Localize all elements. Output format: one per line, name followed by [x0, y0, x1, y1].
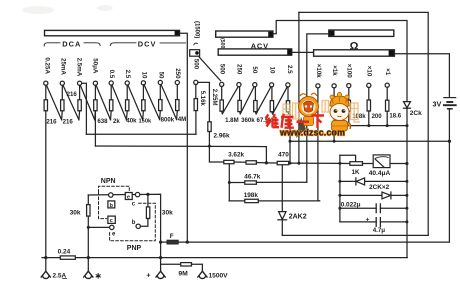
- battery 3V: [444, 98, 456, 109]
- resistor R 800k (50V): [159, 85, 161, 100]
- resistor 470: [277, 161, 289, 164]
- svg-text:470: 470: [278, 152, 289, 159]
- svg-text:3V: 3V: [433, 100, 442, 109]
- DCV 500 contact circle: [194, 80, 198, 84]
- diode 2CK left: [356, 178, 364, 185]
- svg-text:2CK×2: 2CK×2: [369, 184, 390, 191]
- wire H1 battery feed: [290, 140, 449, 142]
- wire diode row R: [340, 194, 407, 196]
- wire between 3.62k boxes: [234, 161, 246, 163]
- NPN dashed box: [99, 186, 130, 218]
- svg-text:+: +: [146, 271, 151, 280]
- svg-text:∗: ∗: [95, 270, 102, 280]
- wire node470 to 470: [266, 162, 277, 164]
- DCA contact labels rotated: [43, 57, 98, 76]
- NPN socket row wire: [88, 194, 160, 242]
- pin circle NPN bottom: [110, 225, 114, 229]
- wire bar to vertical: [180, 33, 188, 242]
- svg-text:2.25M: 2.25M: [211, 89, 217, 106]
- node rowL left: [338, 180, 341, 183]
- wire row163 meter feed: [289, 162, 340, 164]
- svg-text:e: e: [112, 232, 116, 238]
- wire 46.7k right: [256, 181, 306, 183]
- svg-text:0.5: 0.5: [108, 70, 115, 79]
- label bracket DCV: [110, 43, 197, 46]
- label bracket DCA: [44, 43, 100, 46]
- omega common rail: [349, 125, 407, 127]
- node fuse row DCV vertical: [186, 241, 189, 244]
- DCA/DCV contact circles: [44, 80, 180, 85]
- svg-text:×100: ×100: [346, 64, 353, 78]
- 1k wiper bump: [340, 155, 356, 161]
- svg-text:×1: ×1: [384, 68, 391, 76]
- svg-text:9M: 9M: [178, 271, 188, 278]
- node row0022 left: [338, 207, 341, 210]
- resistor 5.16k (DCV 500): [195, 85, 197, 99]
- resistor R 216 (25mA shunt): [61, 85, 63, 99]
- wire meter to right rail: [390, 163, 407, 165]
- svg-text:2Ck: 2Ck: [410, 110, 422, 117]
- pin circle NPN top: [109, 193, 113, 197]
- svg-text:40k: 40k: [126, 118, 137, 125]
- resistor 2.25M (ACV 500): [221, 87, 223, 101]
- resistor R 2k (0.5V): [110, 85, 112, 100]
- terminal plus: [156, 271, 165, 278]
- terminal star: [87, 258, 89, 272]
- wire x10k contact down to 198k row: [318, 88, 320, 201]
- wire 46.7k row: [229, 182, 245, 184]
- svg-text:c: c: [132, 202, 136, 208]
- node omega rail x10: [367, 124, 370, 127]
- wire 198k row: [229, 200, 245, 202]
- svg-text:+: +: [366, 217, 370, 224]
- watermark hollow text: [283, 101, 360, 123]
- resistor 3.62k box a: [224, 160, 234, 163]
- switch bar ACV upper: [216, 31, 273, 37]
- svg-text:1K: 1K: [352, 169, 360, 176]
- node row47 right: [405, 220, 408, 223]
- node x1k H1: [333, 140, 336, 143]
- resistor 2.96k: [208, 122, 211, 132]
- diode 2AK2: [279, 212, 286, 220]
- svg-text:50: 50: [157, 72, 164, 79]
- resistor R 216 (0.25A shunt): [45, 85, 47, 99]
- svg-text:800k: 800k: [161, 116, 175, 123]
- wire ACV bar1 loop to omega rail: [273, 21, 407, 102]
- svg-text:200: 200: [372, 114, 383, 120]
- wire L2 rail: [95, 146, 266, 163]
- resistor 9M: [181, 263, 192, 266]
- resistor 13.5k (ACV 2.5): [287, 87, 289, 101]
- wire diagonal 0.5V to node: [112, 85, 127, 120]
- bottom rail: [42, 257, 407, 259]
- node battery H1: [448, 140, 451, 143]
- omega contact circles: [316, 83, 390, 88]
- node rail row163: [338, 162, 341, 165]
- watermark mascot 1: [296, 93, 319, 138]
- svg-text:(1500): (1500): [193, 21, 199, 38]
- svg-text:DCV: DCV: [138, 39, 157, 48]
- resistor 30k left branch: [87, 195, 89, 205]
- wire 2.5mA contact to L1 rail: [82, 83, 87, 134]
- switch bar ACV lower: [218, 49, 292, 55]
- ACV contact circles: [220, 82, 290, 87]
- node rowL right: [405, 180, 408, 183]
- svg-text:1.8M: 1.8M: [225, 117, 239, 124]
- resistor 200 (x10): [368, 88, 370, 101]
- node 30k bottom pin: [87, 226, 90, 229]
- svg-text:0.24: 0.24: [58, 248, 71, 255]
- wire DCV500 contact to 2.96k: [198, 82, 210, 121]
- resistor 30k right branch: [147, 194, 149, 207]
- svg-text:150k: 150k: [139, 119, 152, 125]
- wire 2AK2 bottom line: [282, 234, 428, 236]
- resistor 3.62k box b: [246, 161, 256, 164]
- wire 3.62k to node470: [256, 162, 266, 164]
- terminal 2.5A: [45, 258, 47, 272]
- watermark mascot 2: [330, 92, 351, 131]
- svg-text:216: 216: [67, 91, 78, 98]
- svg-text:500: 500: [219, 64, 226, 75]
- node fuse left: [159, 241, 162, 244]
- svg-text:50μA: 50μA: [92, 58, 99, 74]
- svg-text:4M: 4M: [178, 116, 186, 123]
- node row163 acv: [289, 162, 292, 165]
- node right rail row1: [405, 162, 408, 165]
- node L2 at 2.96k: [208, 145, 211, 148]
- wire row1 to 1k: [340, 162, 350, 164]
- wire 470 bottom to 2AK2: [281, 165, 283, 211]
- diode 2CK right: [382, 192, 391, 199]
- svg-text:NPN: NPN: [101, 178, 116, 185]
- omega contact labels rotated: [315, 64, 391, 78]
- wire diagonal ACV50 to node: [240, 87, 254, 114]
- wire x1k contact down to H1: [333, 88, 335, 141]
- resistor 1k: [350, 162, 363, 166]
- wire plus terminal drop: [160, 242, 162, 272]
- wire diagonal 2.5V to node: [128, 85, 143, 120]
- svg-text:198k: 198k: [244, 192, 259, 199]
- svg-text:10: 10: [268, 67, 275, 74]
- watermark red text: [266, 114, 325, 128]
- resistor 0.24 on rail: [60, 256, 75, 259]
- wire diagonal ACV2.5 to node: [273, 87, 288, 114]
- pin box b: [108, 201, 115, 208]
- wire bottom pin left: [88, 226, 109, 228]
- node H1 left: [289, 140, 292, 143]
- capacitor 4.7u: [376, 218, 380, 227]
- svg-text:×1k: ×1k: [331, 65, 338, 76]
- resistor R 216b (2.5mA shunt): [79, 85, 81, 99]
- resistor 108k (x100): [348, 88, 350, 101]
- node omega rail diode: [406, 124, 409, 127]
- wire diagonal 0.25A to node: [47, 85, 62, 120]
- resistor R 150k (10V): [142, 85, 144, 100]
- svg-text:5.16k: 5.16k: [199, 91, 205, 107]
- svg-text:30k: 30k: [70, 209, 81, 216]
- fuse F: [161, 241, 167, 243]
- wire cap row 4.7: [340, 221, 407, 223]
- node 470 left: [265, 161, 268, 164]
- resistor 198k: [245, 199, 258, 202]
- resistor R 40k (2.5V): [126, 85, 128, 100]
- svg-text:2AK2: 2AK2: [289, 214, 307, 221]
- svg-text:F: F: [170, 233, 174, 240]
- svg-text:250: 250: [174, 68, 181, 79]
- resistor R 4M (250V): [176, 85, 178, 100]
- switch bar omega lower: [314, 50, 395, 56]
- svg-text:www.dzsc.com: www.dzsc.com: [279, 127, 345, 137]
- paper smudge: [22, 5, 113, 14]
- svg-text:50: 50: [251, 66, 258, 73]
- svg-text:×10: ×10: [366, 66, 373, 77]
- svg-text:c: c: [110, 218, 113, 224]
- svg-text:30k: 30k: [162, 210, 173, 217]
- svg-text:1500V: 1500V: [209, 273, 229, 280]
- svg-text:216: 216: [63, 118, 74, 125]
- svg-text:25mA: 25mA: [60, 58, 67, 75]
- node pin row: [146, 193, 149, 196]
- svg-text:DCA: DCA: [62, 39, 81, 48]
- svg-text:360k: 360k: [241, 117, 255, 124]
- svg-text:0.022μ: 0.022μ: [341, 201, 361, 208]
- svg-text:PNP: PNP: [127, 245, 142, 252]
- resistor 1.8M (ACV 250): [239, 87, 241, 101]
- outer loop top wire: [299, 12, 428, 235]
- svg-text:216: 216: [46, 118, 57, 125]
- svg-text:e: e: [127, 194, 130, 200]
- 9M row: [161, 263, 181, 265]
- wire cap row 0.022: [340, 207, 407, 209]
- wire 198k right: [258, 200, 319, 202]
- switch bar DCA/DCV: [45, 30, 180, 35]
- meter 40.4uA: [373, 155, 390, 168]
- wire omega bar1 to 46.7k riser: [307, 34, 329, 182]
- svg-text:638: 638: [97, 118, 108, 125]
- svg-text:2k: 2k: [113, 118, 120, 125]
- node rail 2.5A: [44, 256, 47, 259]
- wire diagonal 2.5mA to node: [80, 85, 94, 120]
- node rail star: [87, 256, 90, 259]
- wire ACV bar2 to omega bar2: [292, 51, 314, 53]
- svg-text:500: 500: [193, 59, 200, 70]
- meter network left rail: [339, 155, 341, 222]
- pin box e: [125, 193, 132, 200]
- wire diagonal ACV10 to node: [256, 87, 271, 114]
- svg-text:×10k: ×10k: [315, 64, 322, 78]
- svg-text:46.7k: 46.7k: [244, 174, 260, 181]
- diode 2Ck: [404, 102, 411, 108]
- node row163 outer loop: [297, 162, 300, 165]
- PNP dashed box: [110, 203, 156, 241]
- node row0022 right: [405, 207, 408, 210]
- svg-text:2.96k: 2.96k: [214, 133, 230, 140]
- resistor R 638 (50uA): [94, 85, 96, 99]
- svg-text:10: 10: [140, 72, 147, 79]
- wire diode row L: [340, 180, 407, 182]
- wire diagonal 10V to node: [144, 85, 160, 120]
- ACV contact labels rotated: [219, 64, 294, 75]
- watermark: [266, 92, 361, 138]
- wire ACV chain bottom to H1 and row163: [289, 114, 290, 163]
- DCV contact labels rotated: [108, 68, 181, 79]
- resistor 46.7k: [245, 181, 257, 184]
- resistor 18.6 (x1): [386, 87, 388, 100]
- resistor 67.5k (ACV 10): [271, 87, 273, 101]
- pin circle PNP top: [135, 192, 139, 196]
- node rowR left: [338, 194, 341, 197]
- svg-text:2.5mA: 2.5mA: [75, 58, 82, 77]
- switch bar omega upper: [329, 30, 394, 36]
- resistor chain left vertical: [228, 164, 230, 201]
- wire omega bar2 to battery top: [394, 54, 449, 98]
- node rail plus vertical: [159, 256, 162, 259]
- svg-text:2.5: 2.5: [124, 70, 131, 79]
- wire diagonal 50uA to node: [96, 85, 110, 120]
- resistor 360k (ACV 50): [254, 87, 256, 101]
- wire stub 2.96k node to 3.62k row: [209, 146, 223, 162]
- svg-text:b: b: [132, 220, 136, 226]
- wire diagonal ACV250 to node: [222, 87, 238, 114]
- pin box c: [108, 216, 115, 223]
- DCV 500 wiper square: [190, 50, 200, 57]
- wire diagonal 500 square to ACV 500 contact: [198, 56, 220, 81]
- svg-text:b: b: [110, 203, 114, 209]
- wire diagonal 25mA to node: [63, 85, 79, 120]
- wire diagonal 50V to node: [161, 85, 177, 120]
- wire 1k to meter: [363, 163, 374, 165]
- svg-text:250: 250: [235, 64, 242, 75]
- node rowR right: [405, 194, 408, 197]
- pin circle PNP bottom: [136, 224, 140, 228]
- svg-text:2.5: 2.5: [286, 65, 293, 74]
- svg-text:40.4μA: 40.4μA: [369, 170, 391, 177]
- fuse row wire: [178, 241, 449, 243]
- terminal 1500V: [198, 271, 207, 278]
- wire L1 rail: [86, 133, 196, 135]
- node omega rail x1: [386, 124, 389, 127]
- svg-text:0.25A: 0.25A: [43, 57, 50, 74]
- outer loop left leg: [298, 12, 300, 163]
- svg-text:4.7μ: 4.7μ: [373, 227, 386, 234]
- svg-text:3.62k: 3.62k: [228, 152, 244, 159]
- capacitor 0.022u: [376, 204, 380, 213]
- node 46.7k left: [228, 181, 231, 184]
- svg-text:18.6: 18.6: [389, 114, 401, 120]
